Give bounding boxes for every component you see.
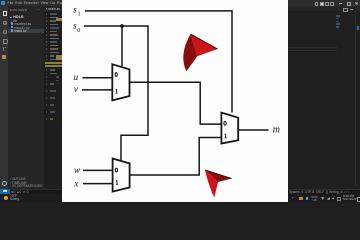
svg-text:v: v: [74, 84, 78, 94]
svg-text:m: m: [273, 125, 280, 136]
svg-text:x: x: [73, 179, 78, 189]
svg-text:1: 1: [78, 11, 81, 17]
svg-text:0: 0: [77, 28, 80, 34]
svg-text:u: u: [74, 72, 79, 82]
svg-text:w: w: [74, 165, 80, 175]
